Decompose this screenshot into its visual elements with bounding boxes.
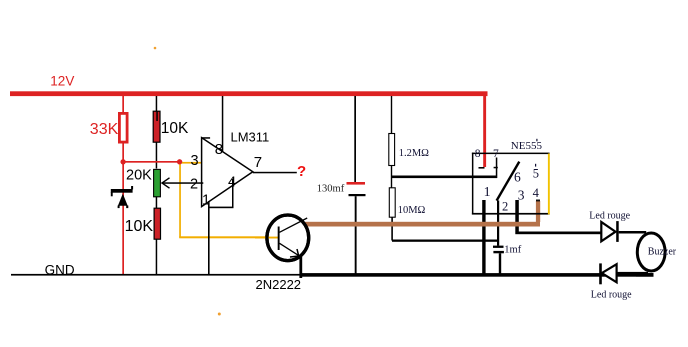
svg-text:7: 7 — [493, 148, 499, 160]
svg-text:2N2222: 2N2222 — [256, 277, 302, 292]
svg-text:20K: 20K — [126, 168, 152, 184]
svg-text:3: 3 — [191, 153, 199, 169]
svg-text:10K: 10K — [125, 218, 154, 235]
svg-text:5: 5 — [533, 167, 539, 181]
svg-text:6: 6 — [514, 170, 521, 185]
svg-text:1: 1 — [484, 185, 491, 200]
svg-text:Led rouge: Led rouge — [589, 210, 630, 221]
svg-text:8: 8 — [215, 141, 223, 158]
svg-text:2: 2 — [502, 200, 508, 214]
svg-text:NE555: NE555 — [511, 140, 543, 152]
svg-text:8: 8 — [475, 148, 481, 160]
svg-text:Buzzer: Buzzer — [648, 246, 677, 257]
svg-text:1.2MΩ: 1.2MΩ — [399, 148, 429, 159]
svg-text:10MΩ: 10MΩ — [398, 205, 426, 216]
svg-text:7: 7 — [254, 154, 262, 171]
svg-text:4: 4 — [533, 186, 540, 200]
svg-text:1mf: 1mf — [504, 244, 521, 255]
svg-text:?: ? — [297, 163, 306, 180]
svg-text:2: 2 — [190, 176, 198, 192]
svg-text:12V: 12V — [50, 73, 74, 88]
svg-text:33K: 33K — [90, 121, 119, 138]
svg-text:10K: 10K — [161, 120, 189, 137]
svg-text:130mf: 130mf — [317, 183, 345, 194]
svg-text:3: 3 — [518, 188, 525, 203]
svg-text:1: 1 — [202, 192, 210, 208]
svg-text:LM311: LM311 — [231, 129, 270, 144]
svg-text:GND: GND — [45, 262, 75, 277]
svg-text:Led rouge: Led rouge — [591, 289, 632, 300]
svg-text:4: 4 — [228, 175, 236, 191]
